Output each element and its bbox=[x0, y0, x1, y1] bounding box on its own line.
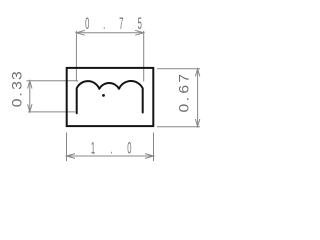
dim 0.67 extension line top bbox=[157, 68, 200, 70]
dim 0.75 extension line left bbox=[75, 31, 77, 82]
dim 0.67 extension line bottom bbox=[157, 126, 200, 128]
svg-text:7: 7 bbox=[177, 74, 192, 83]
dim 1.0 dimension line bbox=[67, 155, 154, 157]
dim 0.33 extension line bottom bbox=[28, 111, 75, 113]
svg-text:.: . bbox=[177, 97, 192, 101]
svg-text:5: 5 bbox=[138, 14, 142, 33]
dim 0.75 extension line right bbox=[143, 31, 145, 82]
svg-text:0: 0 bbox=[10, 99, 25, 108]
svg-text:.: . bbox=[10, 92, 25, 96]
svg-text:0: 0 bbox=[177, 104, 192, 113]
svg-text:0: 0 bbox=[85, 14, 89, 33]
dim 0.33 up arrowhead bbox=[28, 81, 32, 89]
dim 0.67 up arrowhead bbox=[195, 69, 199, 77]
outer rectangle bbox=[67, 68, 154, 126]
dim 0.33 text (rotated) bbox=[10, 71, 25, 107]
dim 0.75 dimension line bbox=[76, 32, 143, 34]
dim 0.33 dimension line bbox=[29, 81, 31, 112]
dim 0.67 down arrowhead bbox=[195, 119, 199, 127]
dim 0.75 right arrowhead bbox=[135, 30, 144, 35]
dim 1.0 extension line left bbox=[66, 133, 68, 162]
dim 0.67 text (rotated) bbox=[177, 74, 192, 113]
dim 0.33 extension line top bbox=[27, 80, 79, 82]
dim 0.75 text bbox=[85, 14, 142, 33]
dim 1.0 left arrowhead bbox=[67, 154, 76, 159]
svg-text:.: . bbox=[110, 138, 112, 157]
svg-text:7: 7 bbox=[119, 14, 123, 33]
dim 1.0 extension line right bbox=[153, 133, 155, 162]
svg-text:.: . bbox=[103, 14, 105, 33]
dim 1.0 right arrowhead bbox=[145, 154, 154, 159]
svg-text:0: 0 bbox=[127, 138, 131, 157]
dim 1.0 text bbox=[91, 138, 132, 157]
svg-text:3: 3 bbox=[10, 71, 25, 80]
center point mark bbox=[102, 94, 105, 97]
dim 0.67 dimension line bbox=[197, 69, 199, 127]
seal profile (triple-bump extrusion cross-section) bbox=[77, 81, 143, 113]
svg-text:3: 3 bbox=[10, 81, 25, 90]
svg-text:1: 1 bbox=[91, 138, 95, 157]
dim 0.33 down arrowhead bbox=[28, 104, 32, 112]
dim 0.75 left arrowhead bbox=[76, 30, 84, 35]
svg-text:6: 6 bbox=[177, 85, 192, 94]
